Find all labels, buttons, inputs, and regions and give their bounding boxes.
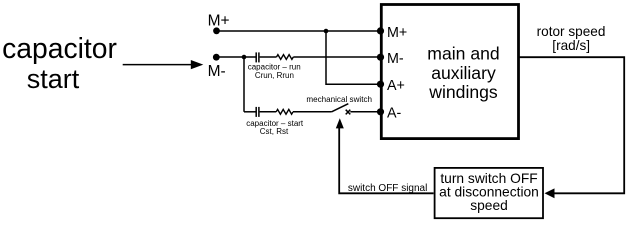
svg-text:speed: speed: [470, 198, 508, 213]
capacitor Crun: [256, 52, 259, 62]
resistor Rrun: [277, 55, 294, 60]
label: capacitor start (title): [2, 32, 117, 94]
svg-text:auxiliary: auxiliary: [431, 63, 496, 83]
svg-text:windings: windings: [428, 82, 498, 102]
svg-text:M-: M-: [387, 51, 404, 67]
block turn switch OFF at disconnection speed: [435, 168, 543, 218]
pin A+ dot: [377, 81, 384, 88]
wire to capacitor Cst: [244, 111, 256, 113]
wire rotor speed output: [519, 57, 625, 193]
svg-text:mechanical switch: mechanical switch: [306, 95, 372, 104]
pin M+ dot: [377, 27, 384, 34]
wire Cst to Rst: [260, 111, 277, 113]
svg-text:capacitor – run: capacitor – run: [248, 62, 301, 71]
junction on M+ wire: [324, 29, 329, 34]
label rotor speed [rad/s]: [537, 24, 606, 53]
svg-text:Crun, Rrun: Crun, Rrun: [255, 71, 294, 80]
block turn-switch text: [439, 171, 539, 213]
svg-text:switch OFF signal: switch OFF signal: [348, 183, 427, 194]
pin M- dot: [377, 54, 384, 61]
svg-text:main and: main and: [427, 44, 499, 64]
wire junction down and right to box pin A+: [326, 31, 381, 84]
svg-text:A+: A+: [387, 78, 405, 94]
wire M- terminal to capacitor Crun: [216, 56, 256, 58]
wire Rst to switch pivot: [293, 111, 332, 113]
svg-text:start: start: [27, 64, 80, 94]
svg-text:A-: A-: [387, 106, 402, 122]
junction on M- wire: [242, 55, 247, 60]
arrow from title to M- terminal: [123, 60, 204, 69]
resistor Rst: [276, 109, 293, 114]
pin A- dot: [377, 108, 384, 115]
wire M+ terminal to box pin M+: [217, 30, 382, 32]
wire junction down to start branch: [243, 57, 245, 112]
wire Crun to Rrun: [260, 56, 277, 58]
svg-text:[rad/s]: [rad/s]: [552, 38, 590, 53]
svg-text:capacitor: capacitor: [2, 32, 117, 64]
arrowhead up to mechanical switch: [336, 118, 344, 128]
node M+ terminal dot: [213, 27, 220, 34]
wire switch to box pin A-: [350, 111, 381, 113]
svg-text:M+: M+: [387, 25, 407, 41]
node M- terminal dot: [213, 54, 220, 61]
svg-text:M+: M+: [208, 12, 230, 29]
capacitor Cst: [256, 107, 259, 117]
mechanical switch lever: [332, 104, 349, 112]
wire Rrun to box pin M-: [293, 56, 381, 58]
arrowhead into turn-switch box: [545, 188, 555, 198]
svg-text:Cst, Rst: Cst, Rst: [260, 127, 289, 136]
svg-text:rotor speed: rotor speed: [537, 24, 606, 39]
block U1 main and auxiliary windings: [381, 5, 518, 139]
wire switch OFF signal feedback: [339, 128, 433, 194]
mechanical switch contact x-mark: [346, 110, 351, 115]
svg-text:M-: M-: [208, 63, 226, 80]
block U1 text: [427, 44, 499, 102]
